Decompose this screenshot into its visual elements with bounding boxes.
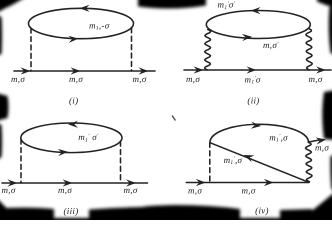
svg-text:m,σ: m,σ bbox=[186, 74, 200, 84]
right edge lower sliver bbox=[330, 155, 332, 191]
left edge mid blob bbox=[0, 93, 9, 121]
svg-text:m,σ: m,σ bbox=[188, 185, 202, 195]
right edge upper strip bbox=[329, 5, 332, 55]
arrow line i mid bbox=[71, 67, 81, 74]
bottom deeper left of (iii) bbox=[0, 208, 54, 219]
bottom-right corner wedge bbox=[295, 191, 332, 224]
arrow line iii right bbox=[126, 179, 136, 186]
boson dashed right i bbox=[131, 28, 133, 71]
wavy iv bbox=[306, 142, 312, 182]
svg-text:m,σ: m,σ bbox=[133, 74, 147, 84]
svg-text:m,σ: m,σ bbox=[2, 185, 16, 195]
svg-text:m1′σ′: m1′σ′ bbox=[218, 0, 236, 11]
boson dashed left i bbox=[30, 28, 32, 71]
bottom strip with label pockets bbox=[0, 218, 332, 224]
arrow line iii mid bbox=[63, 179, 73, 186]
arrow line iii left bbox=[8, 179, 18, 186]
top-right corner wedge bbox=[317, 0, 332, 8]
arrow diagonal iv (up-left) bbox=[242, 152, 254, 162]
arrow line i right bbox=[139, 67, 149, 74]
arc tail arrow segment iv bbox=[309, 140, 321, 142]
diagonal fermion iv bbox=[210, 143, 308, 183]
svg-text:m1,-σ: m1,-σ bbox=[89, 21, 110, 32]
left edge upper sliver bbox=[0, 15, 2, 56]
loop ellipse iii bbox=[21, 123, 122, 153]
svg-text:(i): (i) bbox=[69, 95, 78, 105]
right edge mid blob bbox=[322, 90, 332, 140]
svg-text:m,σ: m,σ bbox=[11, 74, 25, 84]
arrow line ii right bbox=[316, 66, 326, 73]
arrow loop iii bottom (right) bbox=[58, 148, 68, 156]
bottom deeper mid bbox=[89, 205, 240, 219]
arrow line iv mid bbox=[264, 179, 274, 186]
arrow line ii left bbox=[194, 66, 204, 73]
boson dashed iv bbox=[209, 143, 211, 183]
bottom deeper right of (iv) bbox=[280, 209, 312, 219]
svg-text:m,σ: m,σ bbox=[309, 74, 323, 84]
arrow loop i top (left) bbox=[80, 5, 90, 12]
loop ellipse i bbox=[29, 8, 134, 38]
fermion line iii bbox=[2, 182, 148, 184]
svg-text:m,σ: m,σ bbox=[69, 74, 83, 84]
svg-text:m,σ: m,σ bbox=[124, 185, 138, 195]
left edge lower sliver bbox=[0, 123, 2, 160]
fermion line ii bbox=[184, 69, 331, 71]
arrow arc iv end bbox=[316, 136, 327, 145]
svg-text:m,σ: m,σ bbox=[58, 185, 72, 195]
svg-text:(ii): (ii) bbox=[247, 95, 259, 105]
svg-text:m,σ: m,σ bbox=[315, 142, 329, 152]
top-center band bbox=[138, 0, 206, 9]
svg-text:(iii): (iii) bbox=[64, 206, 79, 216]
arrow loop ii bottom (right) bbox=[242, 33, 252, 41]
arrow arc iv top bbox=[251, 122, 262, 130]
arrow line iv left bbox=[196, 179, 206, 186]
fermion line iv bbox=[186, 182, 309, 184]
arrow line ii mid bbox=[247, 66, 257, 73]
arrow loop ii top (left) bbox=[251, 7, 261, 14]
svg-text:m1′,σ: m1′,σ bbox=[224, 155, 243, 166]
stray scan mark bbox=[172, 116, 176, 121]
boson dashed left iii bbox=[20, 139, 22, 183]
wavy left ii bbox=[205, 30, 211, 71]
loop arc iv bbox=[210, 124, 309, 142]
svg-text:(iv): (iv) bbox=[255, 205, 269, 215]
arrow line i left bbox=[21, 67, 31, 74]
arrow loop i bottom (right) bbox=[68, 35, 78, 43]
arrow loop iii top (left) bbox=[68, 121, 78, 128]
wavy right ii bbox=[306, 29, 312, 71]
svg-text:m,σ′: m,σ′ bbox=[263, 40, 279, 50]
bottom-left corner wedge bbox=[0, 198, 19, 224]
svg-text:m,σ: m,σ bbox=[242, 186, 256, 196]
svg-text:m1′,σ: m1′,σ bbox=[269, 132, 288, 143]
fermion line i bbox=[14, 70, 155, 72]
boson dashed right iii bbox=[120, 141, 122, 183]
top-left corner wedge bbox=[0, 0, 27, 14]
loop ellipse ii bbox=[206, 11, 310, 39]
